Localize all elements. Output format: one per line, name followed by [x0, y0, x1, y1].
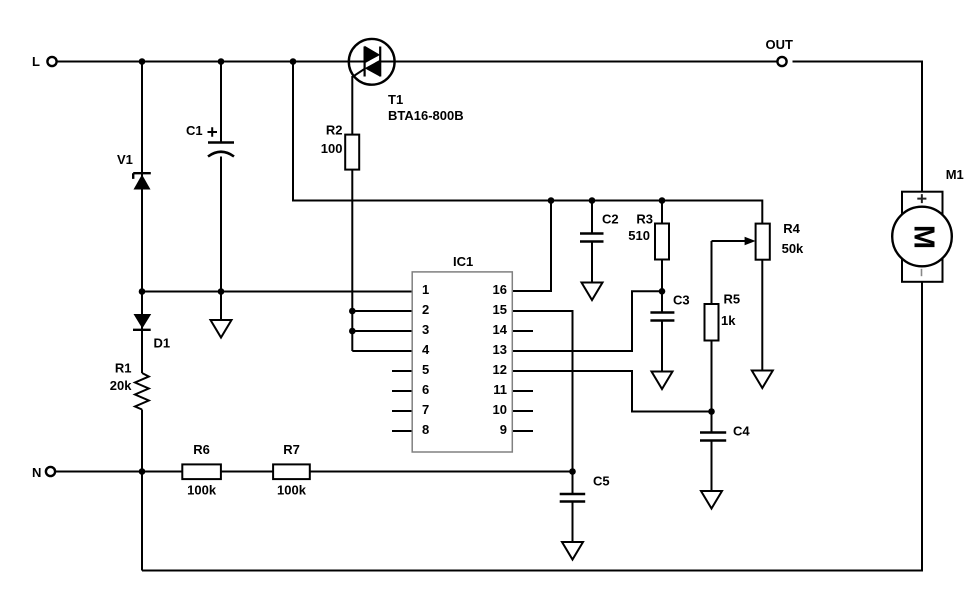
svg-text:R6: R6: [193, 442, 210, 457]
svg-text:N: N: [32, 465, 41, 480]
svg-text:12: 12: [493, 362, 507, 377]
svg-text:D1: D1: [154, 336, 171, 351]
svg-text:11: 11: [493, 382, 507, 397]
svg-text:15: 15: [493, 302, 507, 317]
svg-text:13: 13: [493, 342, 507, 357]
svg-text:C3: C3: [673, 293, 690, 308]
svg-text:R1: R1: [115, 361, 132, 376]
svg-text:6: 6: [422, 382, 429, 397]
svg-text:R3: R3: [636, 212, 653, 227]
svg-text:M1: M1: [946, 167, 964, 182]
svg-text:R4: R4: [783, 221, 800, 236]
svg-text:IC1: IC1: [453, 254, 473, 269]
svg-text:2: 2: [422, 302, 429, 317]
svg-text:100: 100: [321, 141, 343, 156]
svg-text:10: 10: [493, 402, 507, 417]
svg-text:1: 1: [422, 282, 429, 297]
svg-text:1k: 1k: [721, 313, 736, 328]
svg-text:100k: 100k: [187, 483, 217, 498]
svg-text:7: 7: [422, 402, 429, 417]
svg-text:R2: R2: [326, 123, 343, 138]
svg-text:M: M: [907, 225, 939, 249]
svg-text:C4: C4: [733, 424, 750, 439]
svg-text:20k: 20k: [110, 378, 132, 393]
svg-text:C1: C1: [186, 123, 203, 138]
svg-text:16: 16: [493, 282, 507, 297]
svg-text:OUT: OUT: [766, 37, 794, 52]
svg-text:R5: R5: [724, 292, 741, 307]
svg-text:3: 3: [422, 322, 429, 337]
svg-text:9: 9: [500, 422, 507, 437]
svg-text:T1: T1: [388, 92, 403, 107]
svg-text:L: L: [32, 54, 40, 69]
svg-text:100k: 100k: [277, 483, 307, 498]
svg-text:14: 14: [493, 322, 508, 337]
svg-text:4: 4: [422, 342, 430, 357]
svg-text:C2: C2: [602, 212, 619, 227]
svg-text:V1: V1: [117, 152, 133, 167]
svg-text:R7: R7: [283, 442, 300, 457]
svg-text:510: 510: [628, 228, 650, 243]
svg-text:BTA16-800B: BTA16-800B: [388, 108, 464, 123]
svg-text:50k: 50k: [782, 241, 804, 256]
svg-text:8: 8: [422, 422, 429, 437]
svg-text:C5: C5: [593, 474, 610, 489]
svg-text:5: 5: [422, 362, 429, 377]
